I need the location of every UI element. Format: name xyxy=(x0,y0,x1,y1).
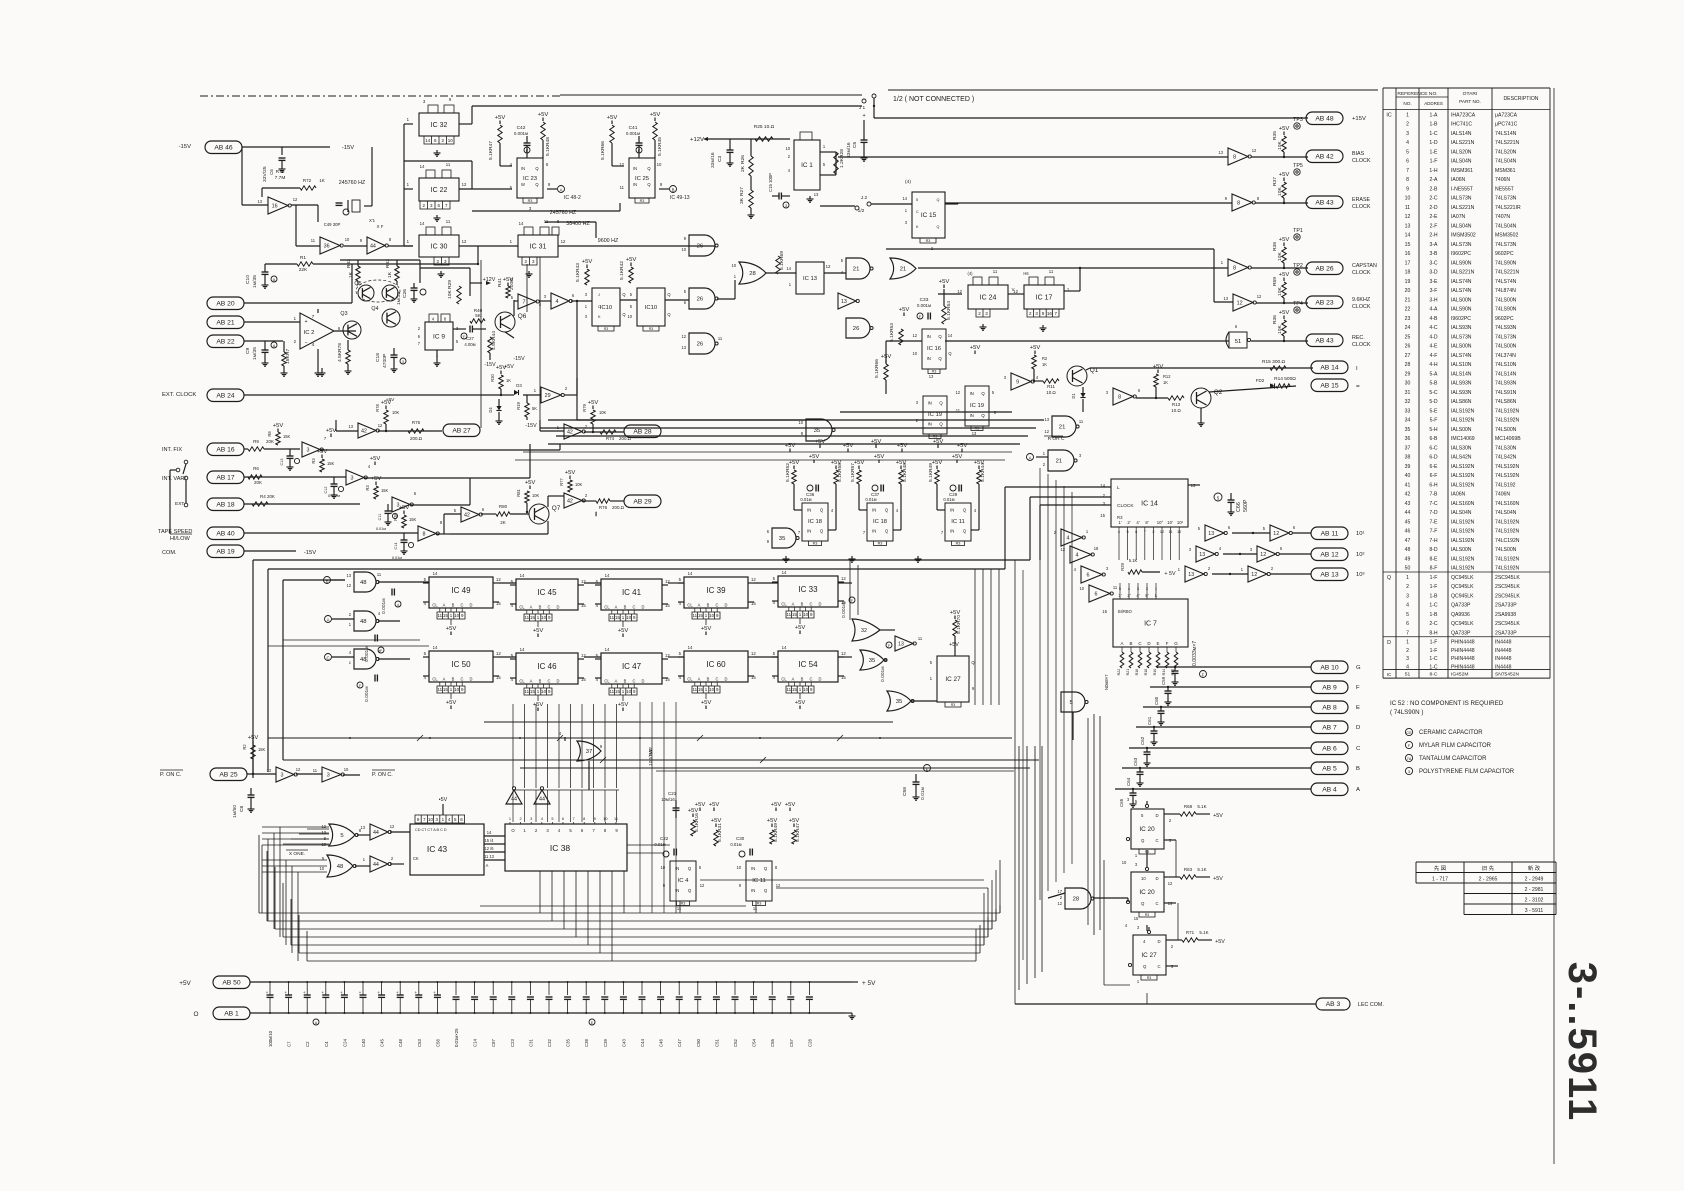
svg-text:R3: R3 xyxy=(813,542,818,546)
svg-text:E: E xyxy=(1356,705,1360,711)
svg-text:10: 10 xyxy=(1122,860,1127,865)
svg-text:C4: C4 xyxy=(324,1041,329,1047)
svg-text:2-E: 2-E xyxy=(1430,214,1439,220)
svg-text:R54: R54 xyxy=(946,301,952,310)
svg-text:12: 12 xyxy=(841,576,846,581)
svg-text:35: 35 xyxy=(1405,427,1411,433)
svg-text:44: 44 xyxy=(373,830,379,836)
svg-text:I9602PC: I9602PC xyxy=(1451,316,1471,322)
svg-text:13: 13 xyxy=(681,345,686,350)
svg-text:Q: Q xyxy=(535,182,538,187)
svg-text:IC 15: IC 15 xyxy=(921,212,937,219)
svg-text:5: 5 xyxy=(930,660,933,665)
svg-text:10: 10 xyxy=(803,612,808,617)
svg-text:5: 5 xyxy=(630,292,633,297)
svg-text:E: E xyxy=(1157,641,1160,646)
svg-text:A: A xyxy=(327,618,330,623)
svg-text:5: 5 xyxy=(1135,799,1138,804)
svg-text:5.1K: 5.1K xyxy=(1197,804,1206,809)
svg-text:13: 13 xyxy=(972,431,977,436)
svg-text:IC 43: IC 43 xyxy=(427,844,448,854)
svg-text:Q: Q xyxy=(939,400,943,405)
svg-text:Q: Q xyxy=(939,422,943,427)
svg-text:R1: R1 xyxy=(300,255,306,261)
svg-text:4-D: 4-D xyxy=(1429,334,1438,340)
svg-text:0.001м: 0.001м xyxy=(880,666,886,682)
svg-text:F: F xyxy=(851,599,853,603)
svg-text:A: A xyxy=(792,602,795,607)
svg-text:35: 35 xyxy=(779,536,786,542)
svg-text:C26: C26 xyxy=(402,289,408,298)
svg-text:IC 27: IC 27 xyxy=(945,676,961,683)
svg-text:10²: 10² xyxy=(1177,520,1184,525)
svg-text:4: 4 xyxy=(896,508,899,513)
svg-text:PHIN4448: PHIN4448 xyxy=(1451,640,1475,646)
svg-text:R27: R27 xyxy=(739,187,745,196)
svg-text:5.1K: 5.1K xyxy=(657,145,663,156)
svg-text:74LS14N: 74LS14N xyxy=(1495,131,1517,137)
svg-text:R42: R42 xyxy=(619,261,625,270)
svg-text:C32: C32 xyxy=(547,1039,552,1047)
svg-text:IALS00N: IALS00N xyxy=(1451,547,1472,553)
svg-text:10: 10 xyxy=(1079,586,1084,591)
svg-text:D: D xyxy=(557,679,560,684)
svg-text:5.1K: 5.1K xyxy=(1197,867,1206,872)
svg-text:1K: 1K xyxy=(506,378,511,383)
svg-text:R17: R17 xyxy=(1171,669,1175,676)
svg-text:1: 1 xyxy=(509,817,511,821)
svg-text:5: 5 xyxy=(424,577,427,582)
svg-text:CL: CL xyxy=(432,677,438,682)
svg-text:+5V: +5V xyxy=(1279,310,1290,316)
svg-text:MSM361: MSM361 xyxy=(1495,168,1516,174)
svg-text:CLOCK: CLOCK xyxy=(1352,270,1371,276)
svg-text:MYLAR FILM CAPACITOR: MYLAR FILM CAPACITOR xyxy=(1419,743,1492,749)
svg-text:15: 15 xyxy=(443,687,448,692)
svg-text:AB 10: AB 10 xyxy=(1320,664,1339,671)
svg-text:1K: 1K xyxy=(1042,362,1047,367)
svg-text:5: 5 xyxy=(424,651,427,656)
svg-text:33: 33 xyxy=(1405,408,1411,414)
svg-text:X ONE.: X ONE. xyxy=(289,851,305,857)
svg-text:17: 17 xyxy=(1405,260,1411,266)
svg-text:8: 8 xyxy=(1237,200,1240,206)
svg-text:1-F: 1-F xyxy=(1430,648,1438,654)
svg-text:12: 12 xyxy=(751,651,756,656)
svg-text:C14: C14 xyxy=(394,543,398,550)
svg-text:IC10: IC10 xyxy=(645,305,658,311)
svg-text:3: 3 xyxy=(1106,566,1109,571)
svg-text:R77: R77 xyxy=(559,478,564,486)
svg-text:6: 6 xyxy=(1293,525,1296,530)
svg-text:+5V: +5V xyxy=(767,818,778,824)
svg-text:-15V: -15V xyxy=(513,356,525,362)
svg-text:9: 9 xyxy=(548,689,551,694)
svg-text:A: A xyxy=(615,605,618,610)
svg-text:74LS04N: 74LS04N xyxy=(1495,159,1517,165)
svg-text:2: 2 xyxy=(1406,122,1409,128)
svg-text:C46: C46 xyxy=(659,1039,664,1047)
svg-text:Q2: Q2 xyxy=(1214,389,1223,396)
svg-text:IC 17: IC 17 xyxy=(1036,294,1053,301)
svg-text:C: C xyxy=(716,677,719,682)
svg-text:1: 1 xyxy=(407,182,410,187)
svg-text:3: 3 xyxy=(1250,547,1253,552)
svg-text:IC 24: IC 24 xyxy=(980,294,997,301)
svg-text:IALS73N: IALS73N xyxy=(1451,334,1472,340)
svg-text:+5V: +5V xyxy=(495,115,506,121)
svg-text:15: 15 xyxy=(1134,916,1139,921)
svg-text:3: 3 xyxy=(529,206,532,211)
svg-text:12: 12 xyxy=(496,651,501,656)
svg-text:CL: CL xyxy=(519,679,525,684)
svg-text:IALS90N: IALS90N xyxy=(1451,307,1472,313)
svg-text:4-B: 4-B xyxy=(1430,316,1439,322)
svg-text:5.1K: 5.1K xyxy=(946,309,952,320)
svg-text:+5V: +5V xyxy=(650,112,661,118)
svg-text:IALS00N: IALS00N xyxy=(1451,344,1472,350)
svg-text:14: 14 xyxy=(605,647,610,652)
svg-text:4: 4 xyxy=(312,342,315,348)
svg-text:10: 10 xyxy=(627,314,632,319)
svg-text:4: 4 xyxy=(555,299,558,305)
svg-text:LEC COM.: LEC COM. xyxy=(1358,1002,1384,1008)
svg-text:2-D: 2-D xyxy=(1429,205,1438,211)
svg-text:R11: R11 xyxy=(1047,384,1055,389)
svg-text:Q: Q xyxy=(981,391,985,396)
svg-text:8: 8 xyxy=(1233,154,1236,160)
svg-text:C: C xyxy=(633,679,636,684)
svg-text:+5V: +5V xyxy=(618,702,629,708)
svg-text:100м/10: 100м/10 xyxy=(268,1030,273,1047)
svg-text:AB 6: AB 6 xyxy=(1322,745,1337,752)
svg-text:INT. FIX: INT. FIX xyxy=(162,447,182,453)
svg-text:9: 9 xyxy=(594,817,596,821)
svg-text:R3: R3 xyxy=(365,485,370,491)
svg-text:2 - 2949: 2 - 2949 xyxy=(1525,877,1544,883)
svg-text:2-A: 2-A xyxy=(1430,177,1439,183)
svg-text:IC 2: IC 2 xyxy=(304,330,315,336)
svg-text:2-C: 2-C xyxy=(1429,196,1438,202)
svg-text:5-E: 5-E xyxy=(1430,408,1439,414)
svg-text:29: 29 xyxy=(545,393,551,399)
svg-text:IN: IN xyxy=(633,166,637,171)
svg-text:+5V: +5V xyxy=(1279,272,1290,278)
svg-text:3: 3 xyxy=(423,99,426,104)
svg-text:200.Ω: 200.Ω xyxy=(410,436,423,441)
svg-text:44: 44 xyxy=(1405,510,1411,516)
svg-text:R3: R3 xyxy=(528,199,533,203)
svg-text:C22: C22 xyxy=(660,836,669,841)
svg-text:C55: C55 xyxy=(770,1039,775,1047)
svg-text:2: 2 xyxy=(1271,566,1274,571)
svg-text:IHC741C: IHC741C xyxy=(1451,122,1472,128)
svg-text:C65: C65 xyxy=(1119,798,1124,807)
svg-text:0.01м: 0.01м xyxy=(730,842,741,847)
svg-text:11: 11 xyxy=(1113,585,1118,590)
svg-text:74LS192N: 74LS192N xyxy=(1495,529,1520,535)
svg-text:EXT.: EXT. xyxy=(175,501,185,507)
svg-text:旧 先: 旧 先 xyxy=(1482,864,1495,872)
svg-text:IALS86N: IALS86N xyxy=(1451,399,1472,405)
svg-text:1: 1 xyxy=(1137,979,1140,984)
svg-text:1-D: 1-D xyxy=(1429,140,1438,146)
svg-text:A: A xyxy=(1356,787,1360,793)
svg-text:IALS192N: IALS192N xyxy=(1451,556,1475,562)
svg-text:36: 36 xyxy=(1405,436,1411,442)
svg-text:A: A xyxy=(443,677,446,682)
svg-text:14: 14 xyxy=(420,164,425,169)
svg-text:10: 10 xyxy=(626,689,631,694)
svg-text:B: B xyxy=(1356,766,1360,772)
svg-text:3: 3 xyxy=(546,828,549,833)
svg-text:C38: C38 xyxy=(584,1039,589,1047)
svg-text:3: 3 xyxy=(444,259,447,264)
svg-text:12: 12 xyxy=(462,182,467,187)
svg-text:5.1K: 5.1K xyxy=(785,471,791,482)
svg-text:AB 13: AB 13 xyxy=(1320,571,1339,578)
svg-text:IC 54: IC 54 xyxy=(798,660,818,669)
svg-text:TP1: TP1 xyxy=(1293,228,1303,234)
svg-text:5.1K: 5.1K xyxy=(850,471,856,482)
svg-text:R3: R3 xyxy=(932,370,937,374)
svg-text:R3: R3 xyxy=(878,542,883,546)
svg-text:5-D: 5-D xyxy=(1429,399,1438,405)
svg-text:IC 50: IC 50 xyxy=(451,660,471,669)
svg-text:46: 46 xyxy=(1405,529,1411,535)
svg-text:5: 5 xyxy=(1263,526,1266,531)
svg-text:R59: R59 xyxy=(1272,277,1278,286)
svg-text:6: 6 xyxy=(414,491,417,496)
svg-text:+5V: +5V xyxy=(933,439,944,445)
svg-text:+5V: +5V xyxy=(371,476,382,482)
svg-text:C60: C60 xyxy=(1154,696,1159,705)
svg-text:-15V: -15V xyxy=(179,144,191,150)
svg-text:15K: 15K xyxy=(285,355,291,364)
svg-text:IC 38: IC 38 xyxy=(550,843,571,853)
svg-text:15K: 15K xyxy=(409,517,417,522)
svg-text:11: 11 xyxy=(377,572,382,577)
svg-text:5: 5 xyxy=(340,833,344,839)
svg-text:8: 8 xyxy=(444,317,447,322)
svg-text:IC 60: IC 60 xyxy=(706,660,726,669)
svg-text:IC 7: IC 7 xyxy=(1144,620,1157,627)
svg-text:B: B xyxy=(707,677,710,682)
svg-text:AB 40: AB 40 xyxy=(216,530,235,537)
svg-text:2: 2 xyxy=(525,259,528,264)
svg-text:+5V: +5V xyxy=(899,307,910,313)
svg-text:C40: C40 xyxy=(361,1039,366,1047)
svg-text:12: 12 xyxy=(1168,881,1173,886)
svg-text:1: 1 xyxy=(1043,451,1046,456)
svg-text:K: K xyxy=(598,315,601,319)
svg-text:5: 5 xyxy=(823,162,826,167)
svg-text:10: 10 xyxy=(681,247,686,252)
svg-text:C49 30P: C49 30P xyxy=(324,222,341,227)
svg-text:1: 1 xyxy=(1221,260,1224,265)
svg-text:13: 13 xyxy=(257,199,262,204)
svg-text:3: 3 xyxy=(1406,131,1409,137)
svg-text:R16: R16 xyxy=(694,813,700,822)
svg-text:10: 10 xyxy=(709,687,714,692)
svg-text:+5V: +5V xyxy=(525,480,536,486)
svg-text:4: 4 xyxy=(368,464,371,469)
svg-text:R37: R37 xyxy=(1272,177,1278,186)
svg-text:3-H: 3-H xyxy=(1429,297,1438,303)
svg-text:74LS00N: 74LS00N xyxy=(1495,344,1517,350)
svg-text:7: 7 xyxy=(863,530,866,535)
svg-text:C52: C52 xyxy=(733,1039,738,1047)
svg-text:2: 2 xyxy=(437,259,440,264)
svg-text:c: c xyxy=(349,660,351,665)
svg-text:Q: Q xyxy=(688,888,692,893)
svg-text:5K: 5K xyxy=(475,313,480,318)
svg-text:2-H: 2-H xyxy=(1429,233,1438,239)
svg-text:13: 13 xyxy=(929,374,934,379)
svg-text:5-A: 5-A xyxy=(1430,371,1439,377)
svg-text:R71: R71 xyxy=(1186,930,1195,935)
svg-text:10: 10 xyxy=(798,420,803,425)
svg-text:D: D xyxy=(725,677,728,682)
svg-text:R3: R3 xyxy=(311,458,316,464)
svg-text:QA9936: QA9936 xyxy=(1451,612,1470,618)
svg-text:2: 2 xyxy=(294,339,297,344)
svg-text:16: 16 xyxy=(272,203,278,209)
svg-text:15K: 15K xyxy=(283,434,291,439)
svg-text:4700P: 4700P xyxy=(382,353,388,368)
svg-text:1-A: 1-A xyxy=(1430,112,1439,118)
svg-text:TP5: TP5 xyxy=(1293,163,1303,169)
svg-text:4-F: 4-F xyxy=(1430,353,1438,359)
svg-text:10м/16: 10м/16 xyxy=(661,797,675,802)
svg-text:11: 11 xyxy=(753,906,758,911)
svg-text:31: 31 xyxy=(1405,390,1411,396)
svg-text:7: 7 xyxy=(445,203,448,208)
svg-text:5.1K: 5.1K xyxy=(619,269,625,280)
svg-text:12: 12 xyxy=(1251,572,1257,578)
svg-text:0.01м: 0.01м xyxy=(943,497,954,502)
svg-text:74LS73N: 74LS73N xyxy=(1495,196,1517,202)
svg-text:−: − xyxy=(304,340,307,346)
svg-text:Q: Q xyxy=(971,660,974,665)
svg-text:9: 9 xyxy=(810,687,813,692)
svg-text:+5V: +5V xyxy=(1030,345,1041,351)
svg-text:10: 10 xyxy=(321,842,326,847)
svg-text:Q: Q xyxy=(667,292,670,297)
svg-text:44: 44 xyxy=(373,862,379,868)
svg-text:1: 1 xyxy=(407,117,410,122)
svg-text:22K: 22K xyxy=(299,267,308,273)
svg-text:QC945LK: QC945LK xyxy=(1451,584,1474,590)
svg-text:IALS192N: IALS192N xyxy=(1451,519,1475,525)
svg-text:IALS04N: IALS04N xyxy=(1451,223,1472,229)
svg-text:3-C: 3-C xyxy=(1429,260,1438,266)
svg-text:2SC945LK: 2SC945LK xyxy=(1495,593,1520,599)
svg-text:10: 10 xyxy=(454,613,459,618)
svg-text:+5V: +5V xyxy=(1215,939,1225,945)
svg-text:11: 11 xyxy=(692,613,697,618)
svg-text:AB 23: AB 23 xyxy=(1315,299,1334,306)
svg-text:C2: C2 xyxy=(305,1041,310,1047)
svg-text:D3: D3 xyxy=(516,383,522,388)
svg-text:13: 13 xyxy=(266,768,271,773)
svg-text:CL: CL xyxy=(604,679,610,684)
svg-text:CE: CE xyxy=(1406,731,1412,735)
svg-text:10K: 10K xyxy=(1277,287,1283,296)
svg-text:Q: Q xyxy=(667,312,670,317)
svg-text:C31: C31 xyxy=(528,1039,533,1047)
svg-text:5-H: 5-H xyxy=(1429,427,1438,433)
svg-text:74LS91N: 74LS91N xyxy=(1495,390,1517,396)
svg-text:IC 41: IC 41 xyxy=(622,588,642,597)
svg-text:D: D xyxy=(819,602,822,607)
svg-text:74L374N: 74L374N xyxy=(1495,353,1516,359)
svg-text:W: W xyxy=(521,182,525,187)
svg-text:1: 1 xyxy=(799,612,802,617)
svg-text:B: B xyxy=(707,603,710,608)
svg-text:Q3: Q3 xyxy=(340,311,347,317)
svg-text:11: 11 xyxy=(437,687,442,692)
svg-text:C14: C14 xyxy=(473,1039,478,1047)
svg-text:32: 32 xyxy=(861,628,867,634)
svg-text:R3: R3 xyxy=(1145,913,1149,917)
svg-text:16: 16 xyxy=(1047,311,1052,316)
svg-text:7: 7 xyxy=(1055,311,1058,316)
svg-text:QC945LK: QC945LK xyxy=(1451,621,1474,627)
svg-text:6: 6 xyxy=(572,293,575,298)
svg-text:C45: C45 xyxy=(380,1039,385,1047)
svg-text:AB 22: AB 22 xyxy=(216,338,235,345)
svg-text:0.001м: 0.001м xyxy=(364,646,370,662)
svg-text:15: 15 xyxy=(792,687,797,692)
svg-text:12: 12 xyxy=(700,883,705,888)
svg-text:15: 15 xyxy=(530,615,535,620)
svg-text:0.01м: 0.01м xyxy=(920,786,926,800)
svg-text:P. ON C.: P. ON C. xyxy=(160,772,182,778)
svg-text:C: C xyxy=(1157,964,1160,969)
svg-text:+5V: +5V xyxy=(1153,364,1164,370)
svg-text:5.1K: 5.1K xyxy=(545,145,551,156)
svg-text:IC 20: IC 20 xyxy=(1139,826,1155,833)
svg-text:74LS93N: 74LS93N xyxy=(1495,381,1517,387)
svg-text:ADDRES: ADDRES xyxy=(1424,101,1443,106)
svg-text:13: 13 xyxy=(348,424,353,429)
svg-text:12: 12 xyxy=(912,333,917,338)
svg-text:C57: C57 xyxy=(789,1039,794,1047)
svg-text:+5V: +5V xyxy=(843,443,854,449)
svg-text:15: 15 xyxy=(443,613,448,618)
svg-text:2-C: 2-C xyxy=(1429,621,1438,627)
svg-text:13: 13 xyxy=(360,825,365,830)
svg-text:1: 1 xyxy=(537,689,540,694)
svg-text:C: C xyxy=(1155,838,1158,843)
svg-text:IC 14: IC 14 xyxy=(1141,500,1158,507)
svg-text:42: 42 xyxy=(1405,492,1411,498)
svg-text:D: D xyxy=(1387,640,1391,646)
svg-text:12: 12 xyxy=(1013,289,1018,294)
svg-text:13: 13 xyxy=(1199,552,1205,558)
svg-text:8: 8 xyxy=(389,237,392,242)
svg-text:C8: C8 xyxy=(239,805,245,812)
svg-text:12: 12 xyxy=(1405,214,1411,220)
svg-text:9: 9 xyxy=(324,836,327,841)
svg-text:D: D xyxy=(470,677,473,682)
svg-text:POLYSTYRENE FILM CAPACITOR: POLYSTYRENE FILM CAPACITOR xyxy=(1419,769,1515,775)
svg-text:11: 11 xyxy=(786,687,791,692)
svg-text:D4: D4 xyxy=(488,407,493,413)
svg-text:IN: IN xyxy=(872,507,876,512)
svg-text:7: 7 xyxy=(522,299,525,305)
